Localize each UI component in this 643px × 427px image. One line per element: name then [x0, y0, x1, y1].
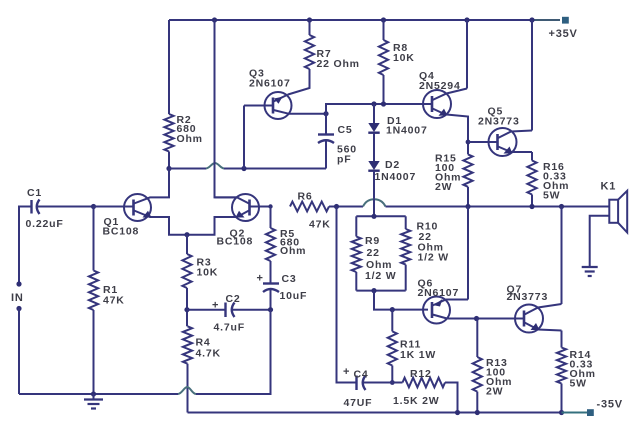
resistor R16 — [527, 161, 536, 195]
ground symbol main — [84, 394, 103, 409]
resistor R5 — [266, 228, 275, 261]
node rail x467 — [464, 17, 469, 22]
wire box bottom to Q6 base line — [374, 291, 428, 310]
capacitor C1 — [32, 200, 94, 215]
svg-text:+35V: +35V — [549, 28, 578, 40]
wire Q3 collector to node — [289, 113, 327, 115]
diode D1 1N4007 — [368, 104, 379, 161]
wire node up and right to Q4 base line — [326, 104, 432, 114]
svg-text:0.22uF: 0.22uF — [26, 218, 64, 230]
wire y168.5 right part to C5 — [224, 168, 326, 170]
ground symbol speaker — [582, 267, 598, 276]
svg-text:4.7K: 4.7K — [196, 348, 221, 360]
transistor Q1 (NPN BC108) — [124, 169, 187, 235]
svg-text:C1: C1 — [27, 187, 42, 199]
resistor R3 — [182, 254, 191, 288]
node jack top — [16, 281, 21, 286]
svg-text:BC108: BC108 — [103, 226, 140, 238]
svg-text:5W: 5W — [570, 378, 587, 390]
svg-text:C2: C2 — [226, 293, 241, 305]
wire jack bottom to ground line — [18, 309, 20, 395]
speaker K1 — [609, 191, 627, 233]
wire Q2 collector vertical from rail — [215, 20, 238, 197]
terminal -35V square — [587, 409, 594, 416]
node Q5 base junction — [466, 140, 471, 145]
wire R8 top lead — [383, 20, 385, 40]
svg-text:BC108: BC108 — [217, 236, 254, 248]
wire Q6 emitter up to output — [467, 207, 469, 300]
node R5 top / output line — [268, 204, 272, 208]
node Q3 collector / C5 — [323, 111, 328, 116]
transistor Q2 (NPN BC108 mirrored) — [187, 194, 271, 235]
svg-text:10K: 10K — [393, 52, 415, 64]
node R16 output — [529, 204, 534, 209]
svg-text:22: 22 — [367, 247, 380, 259]
svg-text:R9: R9 — [365, 235, 380, 247]
wire input jack top lead — [19, 207, 31, 285]
wire +35V terminal lead — [532, 19, 560, 21]
resistor R10 — [401, 229, 410, 265]
svg-text:5W: 5W — [543, 190, 560, 202]
svg-text:2N6107: 2N6107 — [418, 287, 460, 299]
resistor R9 — [352, 237, 361, 273]
node box top — [371, 214, 376, 219]
node rail x214.5 — [212, 17, 217, 22]
resistor R1 — [89, 271, 98, 311]
node R13 top — [474, 316, 479, 321]
svg-text:1/2 W: 1/2 W — [418, 252, 449, 264]
svg-text:+: + — [257, 273, 264, 285]
wire hump output over x374 — [363, 199, 386, 206]
svg-text:2W: 2W — [435, 181, 452, 193]
box R9/R10 bottom line — [356, 290, 405, 292]
node R3/R4/C2 — [184, 307, 189, 312]
node D1 top — [371, 101, 376, 106]
node C1/R1/Q1 base — [91, 204, 96, 209]
transistor Q5 (NPN 2N3773) — [468, 128, 532, 156]
wire R14 bottom lead — [561, 384, 563, 413]
resistor R6 — [290, 202, 329, 212]
svg-text:Ohm: Ohm — [280, 245, 306, 257]
wire R11 bottom lead — [391, 366, 393, 383]
svg-text:1/2 W: 1/2 W — [365, 270, 396, 282]
wire R3 bottom lead — [186, 288, 188, 326]
wire R15 bottom to output — [467, 187, 469, 206]
wire R5 top lead — [270, 207, 272, 229]
svg-text:47K: 47K — [309, 219, 331, 231]
wire R2 bottom to node — [168, 152, 170, 169]
node box bottom — [371, 288, 376, 293]
node R14 bottom — [559, 410, 564, 415]
wire R8 bottom lead — [383, 75, 385, 104]
wire R1 bottom lead — [93, 310, 95, 394]
node C4 drop — [334, 204, 339, 209]
wire R13 bottom lead — [476, 392, 478, 413]
svg-text:1N4007: 1N4007 — [375, 171, 417, 183]
svg-text:C4: C4 — [354, 369, 369, 381]
svg-text:2N6107: 2N6107 — [249, 78, 291, 90]
resistor R15 — [463, 154, 472, 186]
svg-text:D2: D2 — [385, 159, 400, 171]
svg-text:2W: 2W — [486, 386, 503, 398]
transistor Q3 (PNP 2N6107) — [244, 92, 292, 119]
wire hump ground line over R4 — [178, 387, 196, 394]
wire box left bottom lead — [355, 272, 357, 291]
wire R7 bottom lead — [288, 69, 310, 95]
wire Q7 emitter to R14 — [561, 331, 563, 348]
svg-text:10K: 10K — [197, 267, 219, 279]
resistor R8 — [379, 40, 388, 75]
wire -35V terminal lead — [562, 412, 588, 414]
wire Q5 emitter to R16 — [531, 152, 533, 161]
wire output line hump to speaker — [386, 206, 610, 208]
wire -35V line — [188, 412, 562, 414]
node R8 bottom — [381, 101, 386, 106]
box R9/R10 top line — [356, 215, 405, 217]
wire speaker second terminal — [590, 216, 610, 267]
svg-text:1N4007: 1N4007 — [386, 125, 428, 137]
wire R13 top lead — [476, 319, 478, 358]
svg-text:pF: pF — [337, 154, 351, 166]
wire R16 bottom to output — [531, 195, 533, 207]
svg-text:2N3773: 2N3773 — [507, 291, 549, 303]
svg-text:IN: IN — [11, 292, 24, 304]
svg-text:+: + — [343, 366, 350, 378]
wire output line R6 to hump — [329, 206, 363, 208]
wire box left top lead — [355, 216, 357, 236]
svg-text:47UF: 47UF — [344, 397, 373, 409]
terminal +35V square — [562, 17, 569, 24]
wire Q3 base down to y168.5 — [243, 106, 245, 169]
wire node to Q1 base — [94, 206, 134, 208]
node +35V rail corner — [529, 17, 534, 22]
resistor R7 — [305, 35, 314, 69]
node R15 output — [465, 204, 470, 209]
wire R7 top lead — [309, 20, 311, 35]
wire C4 drop from output — [337, 207, 356, 383]
wire R12 right to -35V line — [445, 383, 458, 413]
wire Q4 collector to rail — [466, 20, 468, 89]
node Q7 collector output — [559, 204, 564, 209]
resistor R2 — [164, 114, 173, 152]
svg-text:C5: C5 — [338, 124, 353, 136]
svg-text:1.5K 2W: 1.5K 2W — [393, 395, 439, 407]
resistor R13 — [473, 357, 482, 392]
node common emitters / R3 — [184, 232, 189, 237]
node R11/R12/C4 — [390, 380, 395, 385]
svg-text:K1: K1 — [601, 181, 617, 193]
node jack bottom — [16, 306, 21, 311]
wire box right bottom lead — [405, 265, 407, 291]
wire R4 bottom through hump to -35V line — [187, 364, 189, 413]
svg-text:2N5294: 2N5294 — [419, 80, 461, 92]
wire C3 node down to ground line corner — [196, 310, 271, 394]
svg-text:2N3773: 2N3773 — [478, 116, 520, 128]
resistor R4 — [183, 326, 192, 363]
svg-text:1K 1W: 1K 1W — [400, 349, 436, 361]
node rail x309.5 — [307, 17, 312, 22]
wire box right top lead — [405, 216, 407, 229]
node R12 drop — [455, 410, 460, 415]
svg-text:4.7uF: 4.7uF — [214, 322, 245, 334]
resistor R14 — [557, 348, 566, 384]
wire hump over x214.5 — [206, 163, 224, 169]
svg-text:47K: 47K — [103, 295, 125, 307]
transistor Q7 (NPN 2N3773) — [515, 304, 562, 333]
resistor R12 — [403, 378, 446, 388]
wire Q4 emitter down x468 — [447, 115, 469, 155]
svg-text:R6: R6 — [298, 191, 313, 203]
transistor Q6 (PNP 2N6107) — [423, 297, 468, 324]
node ground at R1 — [91, 391, 96, 396]
node R13 bottom — [475, 410, 480, 415]
node R11 top — [390, 307, 395, 312]
wire feedback-bias horizontal y168.5 left part — [169, 168, 206, 170]
svg-text:+: + — [212, 300, 219, 312]
svg-text:22 Ohm: 22 Ohm — [317, 58, 360, 70]
wire R2 top: rail to R2 — [168, 20, 170, 114]
wire R1 top lead — [93, 207, 95, 271]
wire Q7 collector up to output — [561, 207, 563, 305]
wire Q6 collector line to Q7 base — [447, 318, 524, 320]
wire R11 top lead — [391, 310, 393, 332]
wire ground line left part — [19, 393, 178, 395]
wire R3 top lead — [186, 235, 188, 254]
svg-text:R12: R12 — [410, 368, 432, 380]
node C3 bottom — [268, 307, 273, 312]
wire D2 to R9R10 box top — [373, 199, 375, 217]
resistor R11 — [388, 331, 397, 365]
capacitor C5 — [318, 114, 334, 169]
capacitor C3 — [263, 261, 279, 310]
svg-text:Ohm: Ohm — [177, 133, 203, 145]
node R2 bottom — [166, 166, 171, 171]
transistor Q4 (NPN 2N5294) — [423, 89, 467, 119]
capacitor C4 — [357, 376, 403, 391]
capacitor C2 — [187, 303, 271, 318]
wire Q5 collector to rail — [531, 20, 533, 131]
wire +35V top rail — [169, 19, 532, 21]
node rail x383.5 — [381, 17, 386, 22]
svg-text:C3: C3 — [282, 273, 297, 285]
svg-text:10uF: 10uF — [280, 290, 308, 302]
diode D2 1N4007 — [368, 161, 379, 199]
node Q3 base junction — [241, 166, 246, 171]
svg-text:-35V: -35V — [597, 399, 623, 411]
